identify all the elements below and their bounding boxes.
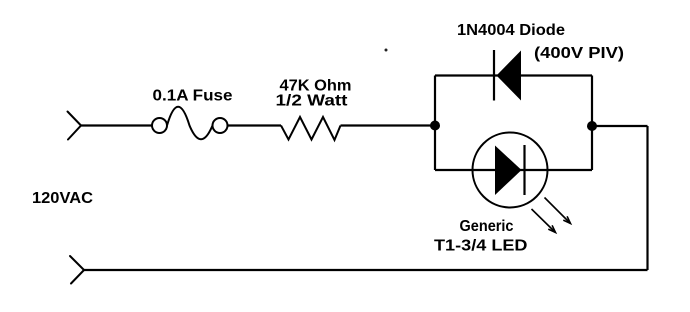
wire: resistor to node A	[341, 124, 436, 126]
wire: top terminal to fuse	[81, 124, 153, 126]
node A (left junction dot)	[430, 121, 440, 131]
LED light-emission arrow 2	[532, 209, 556, 233]
svg-text:120VAC: 120VAC	[32, 190, 93, 207]
diode D1 1N4004 (cathode bar + filled triangle)	[494, 50, 521, 101]
svg-text:0.1A Fuse: 0.1A Fuse	[153, 88, 233, 105]
terminal: top-left AC input terminal	[68, 112, 82, 140]
svg-text:(400V PIV): (400V PIV)	[534, 45, 624, 62]
node B (right junction dot)	[587, 121, 597, 131]
wire: fuse to resistor	[228, 124, 282, 126]
LED light-emission arrow 1	[545, 198, 571, 224]
wire: node B to right edge run	[592, 125, 648, 127]
svg-text:1/2 Watt: 1/2 Watt	[276, 93, 349, 110]
wire: left vertical branch riser	[434, 76, 436, 171]
wire: right vertical branch	[591, 76, 593, 171]
svg-text:Generic: Generic	[460, 218, 514, 235]
stray dot (scan artifact)	[385, 49, 388, 52]
terminal: bottom-left AC input terminal	[70, 256, 84, 284]
fuse F1 (0.1A)	[152, 107, 228, 140]
wire: right side vertical return	[646, 126, 648, 270]
svg-text:1N4004 Diode: 1N4004 Diode	[457, 22, 565, 39]
wire: LED branch horizontal	[435, 169, 592, 171]
resistor R1 47K	[281, 117, 341, 140]
LED D2 (circle envelope, filled triangle, cathode bar)	[473, 133, 548, 208]
svg-text:T1-3/4 LED: T1-3/4 LED	[434, 238, 528, 255]
wire: top branch horizontal	[435, 74, 592, 76]
wire: bottom return run	[84, 269, 648, 271]
